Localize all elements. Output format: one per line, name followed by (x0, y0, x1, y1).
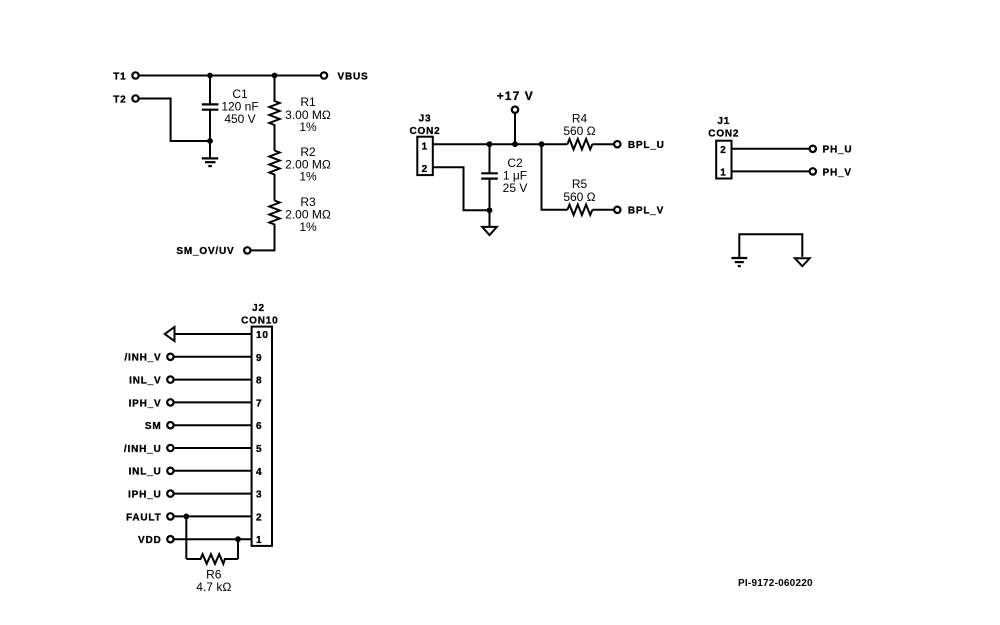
svg-text:PH_V: PH_V (823, 167, 852, 178)
wire ground bridge (739, 234, 802, 257)
svg-text:J3: J3 (419, 114, 432, 125)
capacitor C1 (202, 76, 259, 142)
terminal VBUS (321, 72, 327, 78)
svg-text:PH_U: PH_U (823, 145, 853, 156)
svg-text:VDD: VDD (138, 535, 162, 546)
node junction R1 top (272, 73, 278, 79)
svg-text:/INH_V: /INH_V (124, 353, 161, 364)
svg-text:J2: J2 (252, 303, 265, 314)
svg-text:4: 4 (256, 467, 262, 478)
wire J3 pin1 bus (433, 143, 568, 145)
terminal INL_V (167, 376, 173, 382)
capacitor C2 (481, 144, 527, 210)
wire J2 pin2 (170, 515, 251, 517)
terminal BPL_V (614, 207, 620, 213)
terminal IPH_U (167, 490, 173, 496)
wire R5 branch vertical (542, 144, 568, 210)
svg-text:450 V: 450 V (224, 112, 255, 126)
terminal IPH_V (167, 399, 173, 405)
resistor R6 (186, 554, 238, 594)
svg-text:2: 2 (256, 512, 262, 523)
wire J2 pin10 (175, 333, 252, 335)
svg-text:2: 2 (422, 164, 428, 175)
node junction C2 bottom (487, 207, 493, 213)
terminal INL_U (167, 468, 173, 474)
svg-text:CON2: CON2 (410, 126, 441, 137)
svg-text:9: 9 (256, 353, 262, 364)
svg-text:/INH_U: /INH_U (124, 444, 162, 455)
resistor R2 (269, 145, 331, 201)
terminal PH_V (810, 168, 816, 174)
svg-text:BPL_V: BPL_V (628, 206, 664, 217)
svg-text:VBUS: VBUS (338, 71, 369, 82)
wire VDD drop (237, 539, 239, 559)
svg-text:INL_U: INL_U (129, 467, 162, 478)
svg-text:BPL_U: BPL_U (628, 140, 665, 151)
terminal SM_OV/UV (244, 247, 250, 253)
svg-text:1: 1 (720, 167, 726, 178)
svg-text:CON10: CON10 (241, 315, 278, 326)
svg-text:25 V: 25 V (503, 181, 528, 195)
node junction +17V (512, 141, 518, 147)
wire J2 pin9 (170, 356, 251, 358)
node junction C2 top (487, 141, 493, 147)
terminal +17 V (512, 107, 518, 113)
svg-text:1%: 1% (299, 170, 317, 184)
terminal T2 (132, 95, 138, 101)
wire J1 pin1 to PH_V (732, 170, 813, 172)
terminal VDD (167, 536, 173, 542)
svg-text:CON2: CON2 (708, 129, 739, 140)
wire J2 pin8 (170, 379, 251, 381)
svg-text:10: 10 (256, 330, 269, 341)
node junction VDD (235, 536, 241, 542)
svg-text:SM_OV/UV: SM_OV/UV (176, 246, 234, 257)
node junction FAULT (183, 514, 189, 520)
wire J2 pin6 (170, 424, 251, 426)
ground arrow below C2 (482, 210, 497, 235)
svg-text:6: 6 (256, 421, 262, 432)
svg-text:T1: T1 (113, 71, 126, 82)
node junction C1 bottom (207, 138, 213, 144)
svg-text:FAULT: FAULT (126, 512, 161, 523)
wire J2 pin4 (170, 470, 251, 472)
wire J2 pin3 (170, 493, 251, 495)
svg-text:7: 7 (256, 398, 262, 409)
terminal T1 (132, 72, 138, 78)
ground earth symbol (731, 258, 747, 266)
svg-text:1: 1 (422, 141, 428, 152)
svg-text:3: 3 (256, 490, 262, 501)
svg-text:IPH_V: IPH_V (129, 398, 162, 409)
terminal FAULT (167, 513, 173, 519)
wire FAULT drop (185, 516, 187, 559)
wire T1 to VBUS (136, 75, 325, 77)
svg-text:T2: T2 (113, 94, 126, 105)
svg-text:4.7 kΩ: 4.7 kΩ (196, 580, 231, 594)
svg-text:SM: SM (145, 421, 162, 432)
resistor R5 (563, 177, 617, 215)
svg-text:+17 V: +17 V (497, 89, 534, 103)
connector J3 CON2 (410, 114, 441, 176)
svg-text:1%: 1% (299, 220, 317, 234)
terminal SM (167, 422, 173, 428)
wire J3 pin2 to C2 bottom (433, 167, 490, 210)
connector J2 CON10 (241, 303, 278, 546)
svg-text:2: 2 (720, 145, 726, 156)
wire J2 pin1 (170, 538, 251, 540)
svg-text:1: 1 (256, 535, 262, 546)
wire +17V stem (514, 112, 516, 144)
wire T2 to C1 bottom node (136, 99, 211, 142)
resistor R4 (563, 111, 617, 149)
svg-text:5: 5 (256, 444, 262, 455)
terminal /INH_V (167, 354, 173, 360)
node junction C1 top (207, 73, 213, 79)
arrow pin10 (165, 327, 175, 341)
node junction R5 branch (539, 141, 545, 147)
terminal PH_U (810, 146, 816, 152)
svg-text:1%: 1% (299, 120, 317, 134)
resistor R1 (269, 76, 331, 151)
svg-text:J1: J1 (717, 116, 730, 127)
terminal /INH_U (167, 445, 173, 451)
wire J2 pin7 (170, 401, 251, 403)
wire J1 pin2 to PH_U (732, 148, 813, 150)
svg-text:560 Ω: 560 Ω (563, 190, 595, 204)
ground arrow symbol (795, 258, 810, 266)
terminal BPL_U (614, 141, 620, 147)
svg-text:560 Ω: 560 Ω (563, 124, 595, 138)
connector J1 CON2 (708, 116, 739, 179)
svg-text:INL_V: INL_V (129, 376, 161, 387)
svg-text:8: 8 (256, 376, 262, 387)
resistor R3 (247, 195, 331, 250)
wire J2 pin5 (170, 447, 251, 449)
ground below C1 (202, 141, 218, 166)
svg-text:IPH_U: IPH_U (128, 490, 161, 501)
svg-text:PI-9172-060220: PI-9172-060220 (738, 578, 813, 589)
